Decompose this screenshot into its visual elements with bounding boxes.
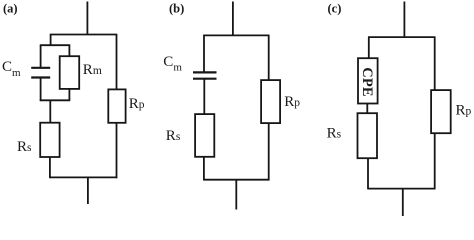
label Cm (a) xyxy=(2,59,21,79)
svg-text:Cm: Cm xyxy=(2,59,21,79)
wire: capacitor lower lead (a) xyxy=(40,78,42,102)
svg-text:(c): (c) xyxy=(328,1,342,15)
bottom terminal lead (b) xyxy=(235,180,237,210)
wire: right branch lower (b) xyxy=(268,123,270,180)
svg-text:Rp: Rp xyxy=(129,96,145,112)
capacitor Cm (b) xyxy=(193,72,217,78)
label Rp (c) xyxy=(456,102,472,118)
wire: right branch upper (b) xyxy=(268,35,270,80)
wire: top node (a) xyxy=(50,34,118,36)
label Rp (a) xyxy=(129,96,145,112)
wire: CPE upper lead (c) xyxy=(368,37,370,58)
wire: bottom node (b) xyxy=(204,179,270,181)
capacitor Cm (a) xyxy=(31,68,50,78)
wire: Rs lower lead (b) xyxy=(203,157,205,181)
resistor Rs (c) xyxy=(358,113,378,158)
label (a) xyxy=(3,1,18,15)
resistor Rp (c) xyxy=(431,90,451,133)
resistor Rp (a) xyxy=(108,89,125,122)
wire: parallel combo top (a) xyxy=(40,44,70,46)
wire: right branch upper (a) xyxy=(116,35,118,90)
label (b) xyxy=(169,1,184,15)
label (c) xyxy=(328,1,342,15)
top terminal lead (b) xyxy=(232,2,234,36)
svg-text:(b): (b) xyxy=(169,1,184,15)
svg-text:Rp: Rp xyxy=(456,102,472,118)
wire: CPE to Rs lead (c) xyxy=(366,104,368,114)
bottom terminal lead (c) xyxy=(402,189,404,216)
label Rs (b) xyxy=(166,128,181,144)
svg-text:Rp: Rp xyxy=(284,94,300,110)
resistor Rm (a) xyxy=(60,56,79,89)
wire: right branch lower (a) xyxy=(116,123,118,178)
wire: Rm lower lead (a) xyxy=(68,89,70,100)
wire: capacitor upper lead (a) xyxy=(40,45,42,68)
wire: right branch lower (c) xyxy=(434,133,436,189)
svg-text:CPE: CPE xyxy=(359,67,375,97)
svg-text:(a): (a) xyxy=(3,1,18,15)
wire: capacitor lower lead (b) xyxy=(203,79,205,114)
label Rm (a) xyxy=(83,62,102,78)
top terminal lead (a) xyxy=(86,2,88,35)
svg-text:Rs: Rs xyxy=(166,128,181,144)
label Rp (b) xyxy=(284,94,300,110)
resistor Rp (b) xyxy=(261,80,280,123)
label Rs (a) xyxy=(17,139,32,155)
top terminal lead (c) xyxy=(403,2,405,38)
svg-text:Rm: Rm xyxy=(83,62,102,78)
wire: bottom node (a) xyxy=(50,176,117,178)
wire: Rs lower lead (c) xyxy=(367,158,369,189)
wire: junction drop to parallel combo (a) xyxy=(50,35,52,46)
svg-text:Rs: Rs xyxy=(17,139,32,155)
resistor Rs (b) xyxy=(195,114,214,157)
resistor Rs (a) xyxy=(40,123,59,157)
wire: junction drop to Rs (a) xyxy=(49,100,51,122)
wire: top node (b) xyxy=(203,34,269,36)
wire: parallel combo bottom (a) xyxy=(40,99,70,101)
label Rs (c) xyxy=(327,125,342,141)
CPE element (c) xyxy=(358,58,378,103)
wire: bottom node (c) xyxy=(368,188,436,190)
wire: capacitor upper lead (b) xyxy=(203,35,205,72)
svg-text:Cm: Cm xyxy=(163,54,182,74)
wire: top node (c) xyxy=(368,36,436,38)
svg-text:Rs: Rs xyxy=(327,125,342,141)
wire: Rm upper lead (a) xyxy=(68,45,70,56)
bottom terminal lead (a) xyxy=(87,177,89,204)
label Cm (b) xyxy=(163,54,182,74)
wire: right branch upper (c) xyxy=(434,37,436,90)
wire: Rs lower lead (a) xyxy=(49,157,51,178)
